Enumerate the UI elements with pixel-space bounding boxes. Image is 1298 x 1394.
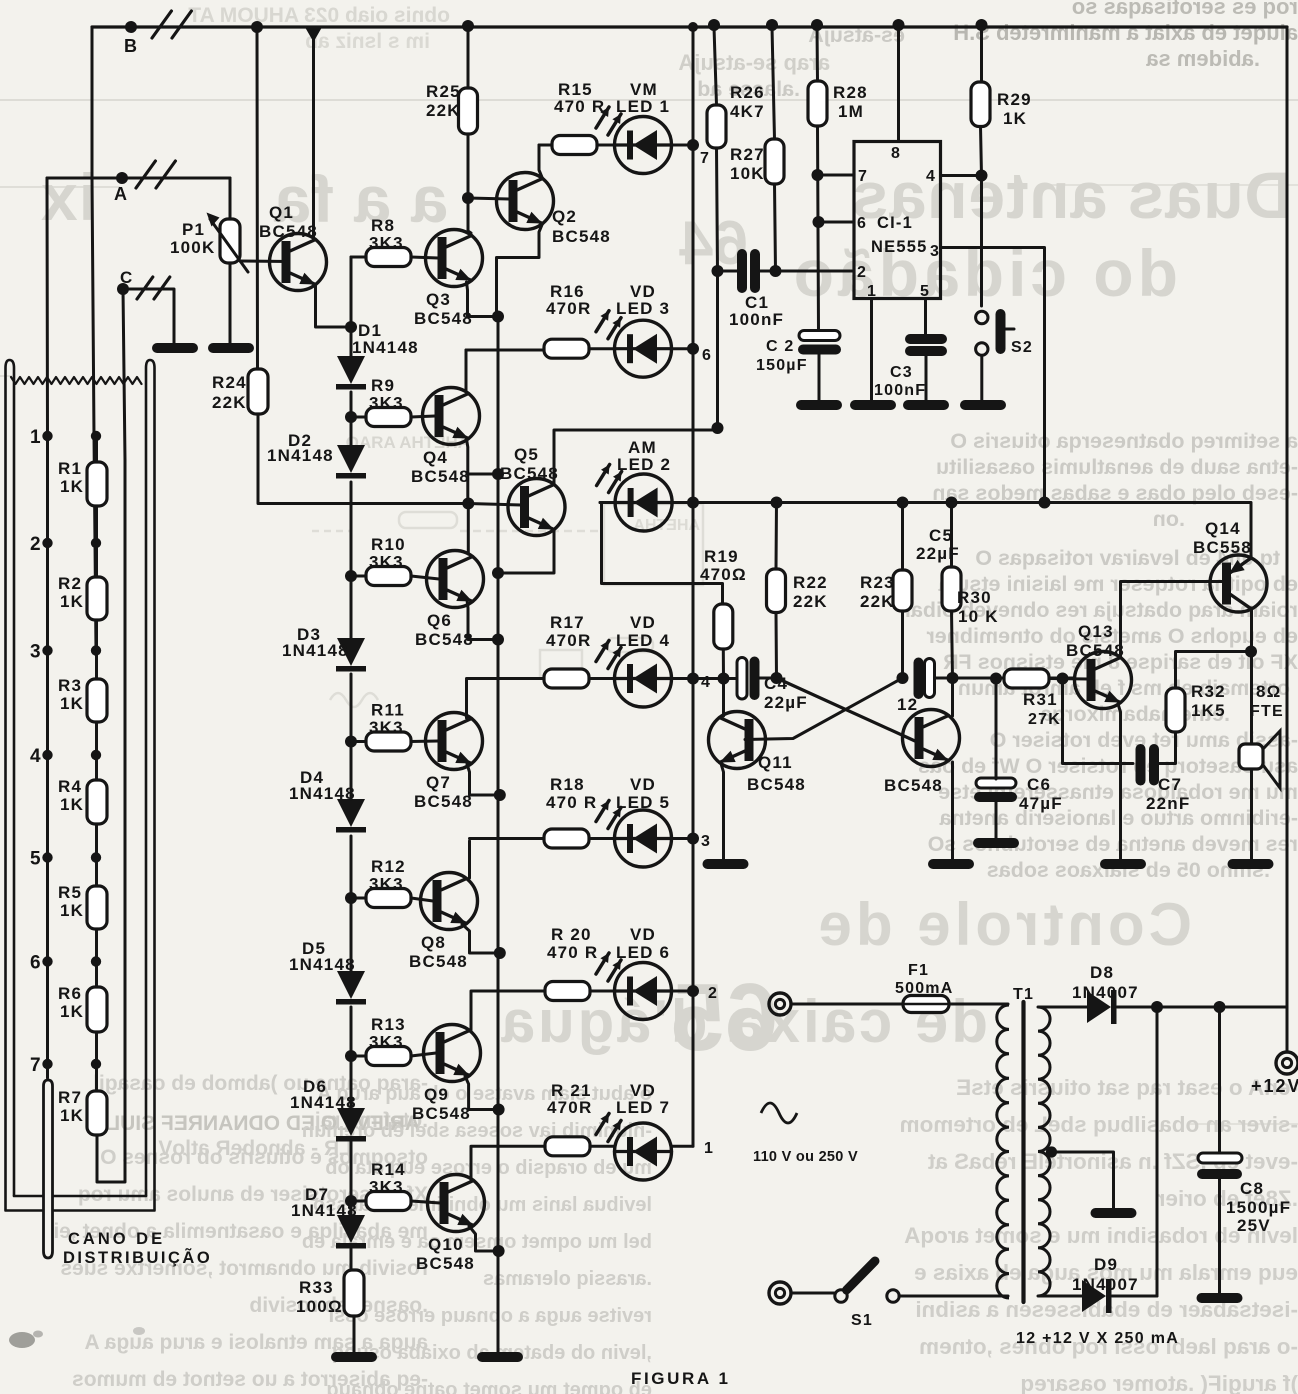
svg-text:o abut siam avatse o eb auq ar: o abut siam avatse o eb auq aruq A: [317, 1083, 652, 1105]
svg-text:VD: VD: [630, 775, 656, 794]
wire Q5 base row: [468, 504, 521, 506]
wire S1 to primary: [899, 1295, 1008, 1298]
wire Q10 emitter to bus: [469, 1226, 499, 1251]
ground (P1): [208, 343, 254, 353]
wire secondary top to D8: [1038, 1006, 1087, 1009]
svg-text:BC558: BC558: [1193, 538, 1252, 557]
svg-text:R22: R22: [793, 573, 828, 592]
distribution pipe: [44, 1080, 53, 1258]
svg-text:Duas antenas: Duas antenas: [851, 158, 1292, 232]
switch S2: [976, 311, 988, 323]
svg-text:C8: C8: [1240, 1179, 1264, 1198]
resistor R22 22K: [767, 569, 786, 613]
wire R26 to C1 node: [717, 148, 718, 271]
node B: [125, 21, 137, 33]
svg-text:3K3: 3K3: [369, 234, 404, 253]
svg-text:R18: R18: [550, 775, 585, 794]
svg-text:1K: 1K: [60, 1002, 84, 1021]
svg-text:R5: R5: [58, 883, 82, 902]
junction pin4/R29/S2: [976, 170, 988, 182]
resistor R15 470R: [552, 136, 597, 155]
junction node 4: [687, 673, 699, 685]
capacitor C7 22nF: [1136, 744, 1146, 786]
svg-text:R4: R4: [58, 777, 82, 796]
svg-text:100K: 100K: [170, 238, 215, 257]
transistor Q5 BC548: [508, 479, 565, 536]
diode D3 1N4148: [337, 638, 365, 666]
resistor R16 470R: [544, 339, 589, 358]
wire LED2 cathode to R19: [600, 503, 723, 605]
svg-text:R26: R26: [730, 83, 765, 102]
wire +V top rail: [92, 25, 1287, 28]
wire R11 to Q7 base: [351, 740, 366, 743]
junction R30 top: [946, 497, 958, 509]
svg-text:+12V: +12V: [1251, 1076, 1298, 1096]
junction C5/R30/Q12 collector: [947, 672, 959, 684]
wire diode chain: [350, 257, 353, 356]
junction C8 top: [1214, 1001, 1226, 1013]
ground (Q12): [928, 859, 974, 869]
cable-break marks on B line: [152, 11, 171, 38]
wire secondary bottom to D9: [1038, 1295, 1082, 1298]
wire A row corner to P1: [229, 178, 232, 219]
wire R16 to LED: [589, 347, 615, 350]
svg-text:S2: S2: [1011, 339, 1033, 356]
svg-text:B: B: [124, 36, 138, 56]
svg-text:22nF: 22nF: [1146, 794, 1190, 813]
svg-text:BC548: BC548: [409, 952, 468, 971]
ground (C8): [1197, 1293, 1243, 1303]
wire LED to bus (node 4): [672, 677, 694, 680]
svg-text:LED 7: LED 7: [616, 1098, 670, 1117]
resistor R4 1K: [87, 780, 107, 824]
svg-text:8: 8: [891, 145, 901, 162]
wire R21 to LED: [590, 1145, 615, 1148]
tank right wall: [146, 360, 155, 1210]
svg-text:R8: R8: [371, 216, 395, 235]
svg-text:R17: R17: [550, 613, 585, 632]
wire LED to bus (node 7): [672, 144, 694, 147]
junction Q8 emitter on bus: [494, 947, 506, 959]
wire C4 to R22 node: [760, 677, 777, 680]
resistor R10 3K3: [366, 567, 411, 586]
ground (center tap): [1091, 1208, 1137, 1218]
wire R8 to Q3 base: [351, 256, 366, 259]
junction R32/speaker line: [1245, 646, 1257, 658]
svg-text:eb oqmet mu somet oatne obnauq: eb oqmet mu somet oatne obnauq: [326, 1379, 652, 1394]
junction C6 top: [990, 673, 1002, 685]
junction diode chain y=1056: [345, 1050, 357, 1062]
LED LED 6 (VD): [615, 963, 672, 1020]
wire LED to bus (node 2): [672, 990, 694, 993]
wire AC top to fuse: [791, 1003, 903, 1006]
svg-text:R14: R14: [371, 1160, 406, 1179]
wire node4 row to C4: [693, 677, 737, 680]
svg-text:BC548: BC548: [259, 222, 318, 241]
ground (C3): [903, 400, 949, 410]
wire fuse to primary: [949, 1003, 1008, 1006]
svg-text:1N4148: 1N4148: [267, 446, 334, 465]
wire C8 to ground: [1218, 1179, 1221, 1293]
diode D5 1N4148: [337, 971, 365, 999]
LED AM LED 2: [615, 474, 672, 531]
svg-text:VD: VD: [630, 925, 656, 944]
transistor Q2 BC548: [497, 173, 554, 230]
resistor R5 1K: [87, 886, 107, 929]
transformer T1 secondary: [1038, 1007, 1050, 1296]
junction R23 top: [897, 497, 909, 509]
capacitor C4 22µF: [737, 658, 747, 700]
capacitor C6 47µF: [976, 778, 1016, 788]
wire right edge +12V feed: [1286, 27, 1289, 1052]
wire rail to R27: [772, 27, 775, 139]
wire R7 to C-probe hook: [97, 1135, 125, 1182]
svg-text:R7: R7: [58, 1088, 82, 1107]
junction rail/pin8: [893, 19, 905, 31]
ground (R33): [331, 1352, 377, 1362]
resistor R30 10K: [942, 567, 961, 611]
wire D9 riser: [1156, 1007, 1159, 1296]
junction Q2+Q3 emitters on bus: [492, 311, 504, 323]
svg-text:BC548: BC548: [414, 309, 473, 328]
LED LED 5 (VD): [615, 810, 672, 867]
svg-text:im s lsniz ab: im s lsniz ab: [305, 30, 430, 53]
wire C1 left lead: [718, 270, 738, 273]
wire rail to R28: [816, 27, 820, 81]
junction Q7 emitter on bus: [494, 789, 506, 801]
svg-text:R30: R30: [957, 588, 992, 607]
svg-text:Q3: Q3: [426, 290, 451, 309]
transformer T1 primary: [997, 1005, 1009, 1298]
svg-text:R28: R28: [833, 83, 868, 102]
svg-text:BC548: BC548: [884, 776, 943, 795]
svg-text:22µF: 22µF: [916, 544, 960, 563]
junction rail/R28: [811, 19, 823, 31]
wire C to ground stub: [123, 289, 174, 343]
wire Q12 emitter down to ground: [951, 762, 954, 859]
svg-text:1N4007: 1N4007: [1072, 983, 1139, 1002]
resistor R28 1M: [808, 81, 827, 126]
svg-text:)f arugiF( .atomer oasareq: )f arugiF( .atomer oasareq: [1020, 1371, 1298, 1394]
junction C1/R26: [712, 265, 724, 277]
LED LED 1 (VM): [615, 117, 672, 174]
resistor R25 22K: [459, 88, 478, 134]
ground (S2): [960, 400, 1006, 410]
svg-text:C5: C5: [929, 526, 953, 545]
svg-text:R2: R2: [58, 574, 82, 593]
svg-text:roq es serotisaqas so: roq es serotisaqas so: [1072, 0, 1298, 19]
svg-text:R11: R11: [371, 701, 405, 720]
potentiometer P1 100K: [220, 219, 240, 263]
diode D2 1N4148: [337, 445, 365, 473]
wire R15 left stub: [539, 144, 552, 147]
svg-text:47µF: 47µF: [1019, 794, 1063, 813]
svg-text:1: 1: [704, 1140, 714, 1157]
svg-text:D8: D8: [1090, 963, 1114, 982]
junction rail/R25: [462, 20, 474, 32]
svg-text:470R: 470R: [547, 1098, 592, 1117]
ground (C2): [796, 400, 842, 410]
switch S1: [835, 1290, 847, 1302]
junction Q1 emitter / D1: [345, 321, 357, 333]
wire Q13 emitter down to ground: [1118, 704, 1121, 859]
svg-text:3: 3: [701, 833, 711, 850]
diode D8 1N4007: [1087, 991, 1111, 1023]
svg-text:R12: R12: [371, 857, 406, 876]
svg-text:7: 7: [700, 150, 710, 167]
wire R14 to Q10 base: [351, 1200, 366, 1203]
svg-text:a setimreq obatneserqa otiusri: a setimreq obatneserqa otiusris O: [950, 429, 1298, 453]
svg-text:BC548: BC548: [412, 1104, 471, 1123]
svg-text:LED 3: LED 3: [616, 299, 670, 318]
svg-text:LED 2: LED 2: [617, 455, 671, 474]
junction Q2 base: [462, 192, 474, 204]
wire C probe down into tank: [123, 289, 125, 460]
transistor Q12 BC548: [903, 710, 960, 767]
svg-text:150µF: 150µF: [756, 357, 808, 374]
capacitor C8 1500µF 25V: [1198, 1153, 1242, 1163]
svg-text:BC548: BC548: [414, 792, 473, 811]
wire LED2 row: [600, 501, 693, 504]
junction node 7: [687, 139, 699, 151]
svg-text:R27: R27: [730, 145, 765, 164]
junction Q5 collector / R26: [712, 422, 724, 434]
wire R33 to ground: [353, 1316, 356, 1352]
wire Q1 collector to rail: [312, 40, 315, 240]
ground (speaker): [1228, 859, 1274, 869]
svg-text:R24: R24: [212, 373, 247, 392]
svg-text:1N4148: 1N4148: [289, 784, 356, 803]
svg-text:1500µF: 1500µF: [1226, 1198, 1291, 1217]
wire node line to Q14 emitter: [1250, 503, 1253, 559]
resistor R19 470Ω: [714, 604, 733, 649]
resistor R29 1K: [971, 82, 990, 127]
wire pin4: [941, 174, 982, 177]
svg-text:7: 7: [858, 168, 868, 185]
svg-text:CI-1: CI-1: [877, 214, 913, 232]
resistor R17 470R: [544, 669, 589, 688]
wire Q11 collector up: [722, 679, 725, 717]
svg-text:1K: 1K: [60, 477, 84, 496]
svg-text:-etna saub eb aenatlumis oasas: -etna saub eb aenatlumis oasasilitu: [936, 455, 1298, 479]
wire rail to R24: [256, 27, 260, 369]
wire pin5 to C3: [924, 299, 927, 335]
wire Q8 collector from R18 row: [468, 841, 471, 878]
svg-text:22K: 22K: [860, 592, 895, 611]
junction node LED2/pin3: [687, 497, 699, 509]
wire C1 node down to Q5 collector row: [716, 271, 719, 430]
wire C probe down: [124, 460, 127, 1170]
wire C5 node to Q13 base: [953, 677, 1075, 680]
wire R9 to Q4 base: [351, 416, 366, 419]
wire +12 corner: [1286, 1007, 1289, 1052]
wire D8 to +12 node: [1117, 1006, 1287, 1009]
resistor R11 3K3: [366, 732, 411, 751]
wire LED anode bus: [692, 27, 695, 1146]
resistor R31 27K: [1004, 669, 1049, 688]
svg-text:P1: P1: [182, 220, 205, 239]
tank left wall: [6, 360, 15, 1210]
wire rail to R29: [980, 27, 983, 82]
wire LED to bus (node 6): [672, 347, 694, 350]
resistor R27 10K: [765, 139, 784, 184]
svg-text:R6: R6: [58, 984, 82, 1003]
junction Q4 emitter on bus: [492, 468, 504, 480]
svg-text:1N4148: 1N4148: [282, 641, 349, 660]
wire R18 row left: [470, 837, 545, 840]
wire R16 row left: [466, 349, 544, 352]
wire C7 to R32: [1160, 732, 1176, 764]
wire R24 to Q5 base row: [258, 414, 468, 504]
ground (Q13): [1100, 859, 1146, 869]
wire A down into tank: [46, 178, 50, 436]
ground (pin1): [850, 400, 896, 410]
wire Q12 collector up: [951, 678, 954, 716]
wire Q2 collector up to R15 row: [539, 145, 552, 179]
fuse F1 500mA: [903, 996, 949, 1013]
svg-text:arap se-atsujA: arap se-atsujA: [678, 50, 830, 75]
LED LED 7 (VD): [615, 1123, 672, 1180]
svg-text:Q2: Q2: [552, 207, 577, 226]
resistor R14 3K3: [366, 1192, 411, 1211]
svg-text:3K3: 3K3: [369, 1033, 404, 1052]
wire A row: [47, 177, 230, 180]
svg-text:.on: .on: [1153, 507, 1185, 531]
junction pin7: [812, 169, 824, 181]
resistor R23 22K: [893, 570, 912, 611]
resistor R6 1K: [87, 987, 107, 1032]
junction rail/R26: [708, 19, 720, 31]
resistor R26 4K7: [707, 105, 726, 148]
svg-text:LED 1: LED 1: [616, 97, 670, 116]
wire R25 to Q2 base: [467, 134, 470, 231]
svg-text:1K: 1K: [60, 795, 84, 814]
junction Q10 emitter on bus: [493, 1245, 505, 1257]
wire C6 to ground: [995, 802, 998, 838]
ground (C line): [152, 343, 198, 353]
svg-text:3: 3: [930, 243, 940, 260]
wire B down-left to tank: [91, 27, 94, 178]
junction R22 top: [771, 497, 783, 509]
wire AC bottom to S1: [791, 1292, 835, 1295]
transistor Q8 BC548: [421, 873, 478, 930]
svg-text:65: 65: [671, 964, 778, 1071]
capacitor C3 100nF: [905, 334, 947, 344]
wire R column segments: [95, 436, 98, 462]
svg-text:1K: 1K: [60, 694, 84, 713]
junction Q13 base / C7 branch: [1057, 673, 1069, 685]
wire R30 to C5 right node: [952, 611, 953, 678]
junction diode chain y=576: [345, 570, 357, 582]
svg-text:2: 2: [857, 264, 867, 281]
svg-text:BC548: BC548: [747, 775, 806, 794]
resistor R12 3K3: [366, 889, 411, 908]
junction pin3/nodeline: [1039, 497, 1051, 509]
wire LED to bus (node 1): [672, 1145, 694, 1148]
svg-text:470 R: 470 R: [554, 97, 605, 116]
svg-text:3K3: 3K3: [369, 394, 404, 413]
svg-text:FIGURA 1: FIGURA 1: [631, 1369, 731, 1388]
svg-text:R9: R9: [371, 376, 395, 395]
ground (C6): [973, 838, 1019, 848]
svg-text:BC548: BC548: [500, 464, 559, 483]
ground (emitter bus): [477, 1352, 523, 1362]
svg-text:8Ω: 8Ω: [1256, 682, 1282, 701]
terminal +12V: [1276, 1052, 1298, 1074]
transistor Q3 BC548: [426, 230, 483, 287]
wire center tap: [1051, 1152, 1114, 1208]
svg-text:22µF: 22µF: [764, 693, 808, 712]
wire Q7 collector from R17 row: [465, 680, 468, 718]
svg-text:6: 6: [857, 215, 867, 232]
svg-text:R29: R29: [997, 90, 1032, 109]
svg-text:BC548: BC548: [415, 630, 474, 649]
transistor Q10 BC548: [428, 1175, 485, 1232]
svg-text:obnis oiab 023 AHUOM AT: obnis oiab 023 AHUOM AT: [188, 4, 450, 27]
transformer T1 core: [1021, 1002, 1025, 1302]
wire Q9 collector from R20 row: [470, 992, 473, 1030]
wire sensor column (A probe): [46, 436, 49, 1078]
svg-text:NE555: NE555: [871, 238, 927, 256]
svg-text:Q4: Q4: [423, 448, 448, 467]
svg-text:100nF: 100nF: [729, 310, 784, 329]
svg-text:2: 2: [30, 534, 42, 555]
svg-text:4: 4: [701, 674, 711, 691]
wire R15 to LED: [597, 144, 615, 147]
svg-text:Q10: Q10: [428, 1235, 464, 1254]
svg-text:C 2: C 2: [766, 338, 795, 355]
junction center tap: [1046, 1146, 1057, 1157]
svg-text:C: C: [120, 268, 133, 287]
svg-text:100Ω: 100Ω: [296, 1297, 343, 1316]
wire pin7: [818, 174, 855, 177]
svg-text:R 20: R 20: [551, 925, 592, 944]
svg-text:1K: 1K: [60, 592, 84, 611]
wire pin4 node down to S2: [980, 176, 983, 307]
svg-text:revitse auga a obnauq errose o: revitse auga a obnauq errose ossI: [329, 1305, 652, 1327]
svg-text:LED 4: LED 4: [616, 631, 670, 650]
junction C5/R23: [897, 672, 909, 684]
node level 3 on probe column: [42, 645, 52, 655]
resistor R18 470R: [544, 829, 589, 848]
resistor R13 3K3: [366, 1047, 411, 1066]
wire LED to bus (node 3): [672, 837, 694, 840]
svg-text:Q13: Q13: [1078, 622, 1114, 641]
wire Q4 collector from R16 row: [465, 350, 468, 390]
resistor R20 470R: [545, 982, 590, 1001]
resistor R2 1K: [87, 577, 107, 620]
svg-text:Q1: Q1: [269, 203, 294, 222]
wire Q1 emitter down-right to D1 node: [316, 285, 352, 327]
junction D8/D9 join: [1151, 1001, 1163, 1013]
wire Q2 base: [468, 198, 510, 199]
svg-text:3K3: 3K3: [369, 1178, 404, 1197]
svg-text:S1: S1: [851, 1312, 873, 1329]
svg-text:-eribinmo artuo e lanoiserib a: -eribinmo artuo e lanoiserib anetna: [939, 806, 1298, 830]
transistor Q11 BC548: [709, 712, 766, 769]
svg-text:7: 7: [30, 1055, 42, 1076]
junction R27/pin2 line: [770, 265, 782, 277]
resistor R8 3K3: [366, 248, 411, 267]
wire B column into tank: [92, 178, 94, 436]
svg-text:F1: F1: [908, 962, 929, 979]
terminal AC bottom: [769, 1282, 791, 1304]
terminal AC top: [769, 993, 791, 1015]
svg-text:1N4148: 1N4148: [352, 338, 419, 357]
svg-text:22K: 22K: [793, 592, 828, 611]
svg-text:CANO DE: CANO DE: [68, 1230, 165, 1248]
svg-text:3K3: 3K3: [369, 553, 404, 572]
